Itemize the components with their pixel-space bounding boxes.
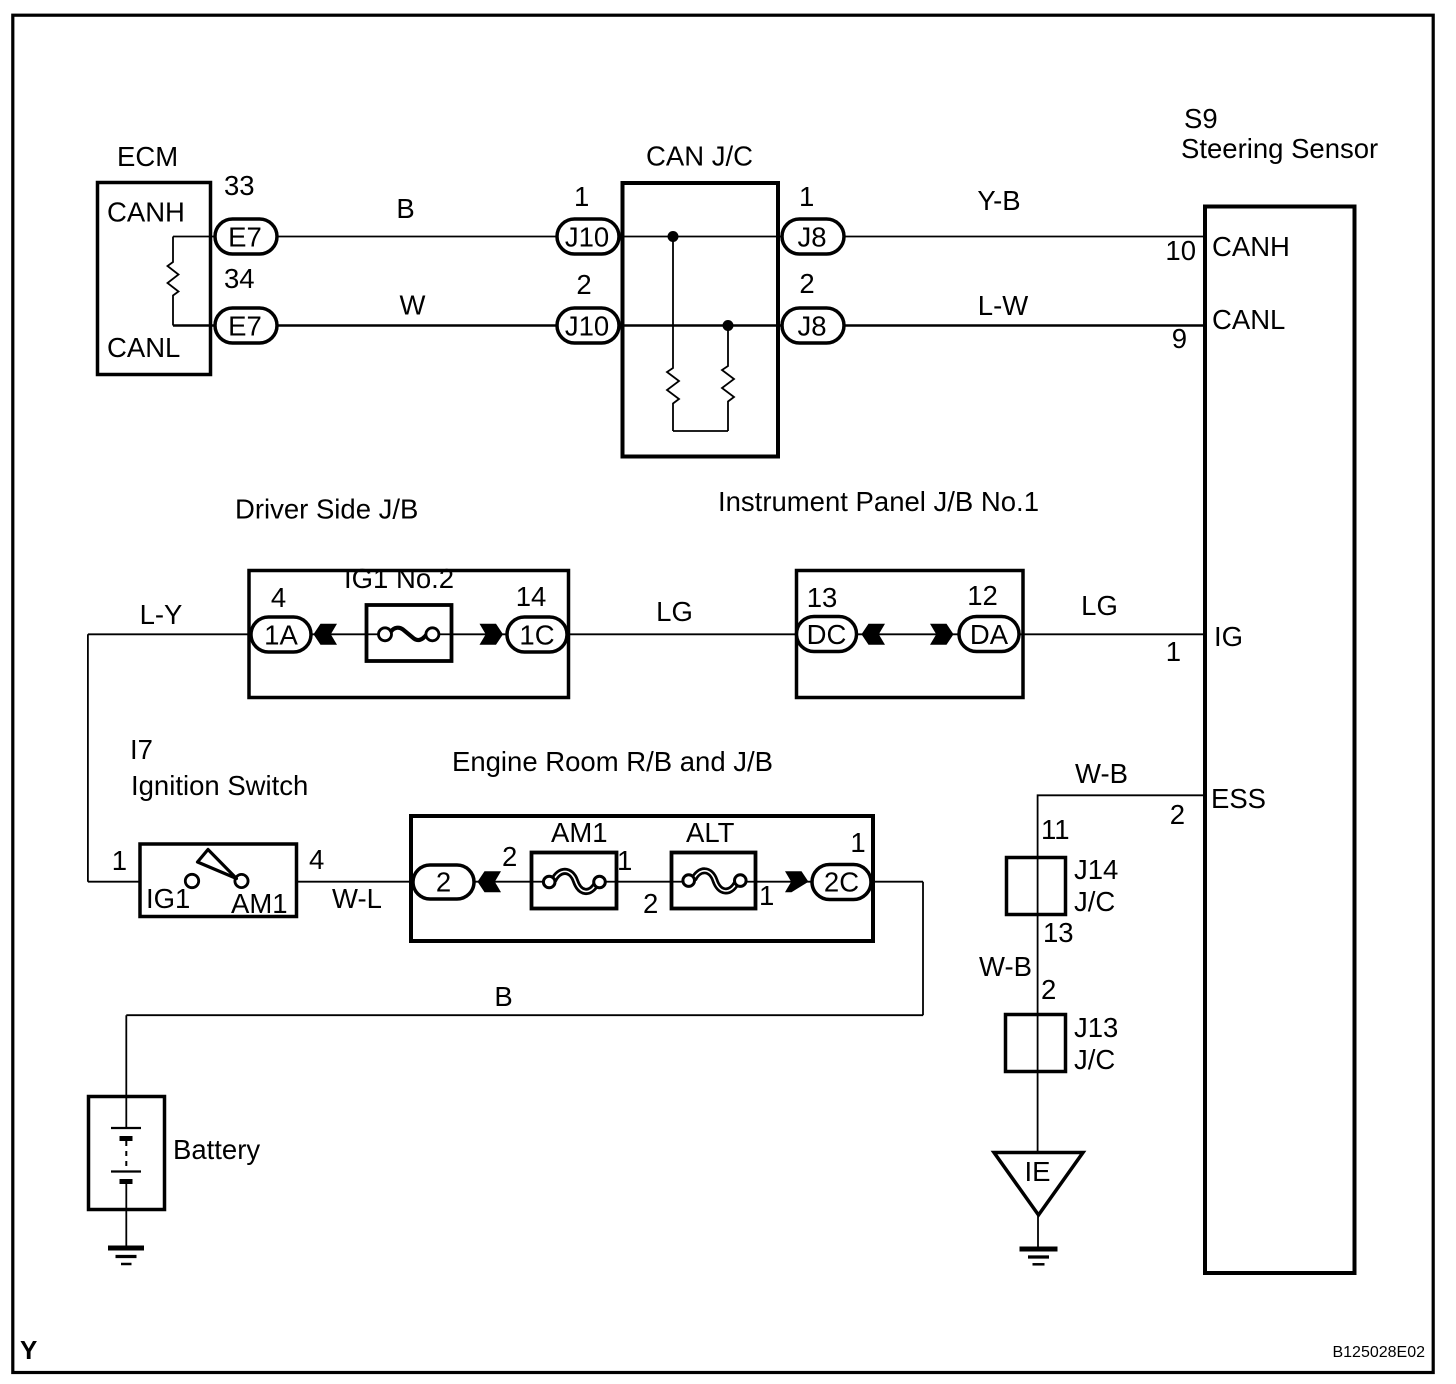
svg-text:34: 34 (224, 263, 255, 294)
connector J8 pin 1 (782, 181, 844, 254)
svg-text:2C: 2C (824, 867, 859, 898)
svg-text:IG1 No.2: IG1 No.2 (344, 563, 454, 594)
svg-text:14: 14 (516, 581, 547, 612)
svg-text:2: 2 (576, 269, 591, 300)
fusible link ALT (672, 817, 757, 909)
svg-text:Engine Room R/B and J/B: Engine Room R/B and J/B (452, 746, 773, 777)
svg-text:L-Y: L-Y (140, 599, 183, 630)
svg-text:IE: IE (1025, 1156, 1051, 1187)
connector 1A pin 4 (251, 582, 311, 652)
svg-text:E7: E7 (228, 222, 262, 253)
svg-text:4: 4 (271, 582, 286, 613)
svg-text:Y-B: Y-B (977, 185, 1020, 216)
svg-text:ECM: ECM (117, 141, 178, 172)
svg-text:L-W: L-W (978, 290, 1028, 321)
wire down to battery (125, 1015, 127, 1128)
svg-text:CANH: CANH (1212, 231, 1290, 262)
svg-text:CANL: CANL (1212, 304, 1285, 335)
svg-text:CANH: CANH (107, 197, 185, 228)
svg-text:1: 1 (759, 880, 774, 911)
arrow into 1C (480, 624, 504, 645)
svg-text:B: B (396, 193, 414, 224)
battery cell link (dashed) (125, 1141, 127, 1172)
svg-text:J/C: J/C (1074, 1044, 1115, 1075)
S9 Steering Sensor box (1165, 103, 1378, 1273)
connector 2C pin 1 (812, 827, 871, 900)
svg-text:2: 2 (799, 268, 814, 299)
arrow into 1A (314, 624, 338, 645)
connector 1C pin 14 (507, 581, 567, 652)
wire CANH B (ECM E7-33 to CAN J/C J10-1) (173, 236, 620, 238)
svg-text:Ignition Switch: Ignition Switch (131, 770, 308, 801)
svg-text:ALT: ALT (686, 817, 735, 848)
wire battery to ground (125, 1184, 127, 1247)
svg-text:1C: 1C (519, 620, 554, 651)
svg-text:10: 10 (1165, 235, 1196, 266)
connector E7 pin 33 (215, 170, 277, 254)
svg-text:B: B (494, 981, 512, 1012)
battery plate long 1 (111, 1127, 141, 1129)
connector 2 (413, 865, 474, 899)
svg-text:AM1: AM1 (551, 817, 608, 848)
svg-text:IG: IG (1214, 621, 1243, 652)
svg-text:1A: 1A (264, 620, 298, 651)
switch contact AM1 (235, 874, 248, 887)
battery plate short 2 (120, 1179, 133, 1184)
wire L-Y vertical drop to ignition switch (87, 634, 89, 881)
arrow into 2C (785, 871, 809, 892)
svg-text:W-L: W-L (332, 883, 382, 914)
wire B (battery feed) (126, 1014, 923, 1016)
wire through J14 (1037, 856, 1039, 1013)
svg-text:Driver Side J/B: Driver Side J/B (235, 494, 418, 525)
svg-text:1: 1 (617, 845, 632, 876)
svg-text:CANL: CANL (107, 332, 180, 363)
svg-text:J/C: J/C (1074, 886, 1115, 917)
svg-text:J10: J10 (565, 222, 609, 253)
wire from 2C down to B wire (922, 882, 924, 1016)
connector E7 pin 34 (215, 263, 277, 343)
connector J10 pin 2 (557, 269, 619, 343)
fuse IG1 No.2 (344, 563, 454, 661)
fusible link AM1 (532, 817, 617, 909)
node junction on CANL (723, 320, 734, 331)
battery plate long 2 (111, 1170, 141, 1172)
arrow into connector 2 (478, 871, 502, 892)
arrow into DC (862, 624, 886, 645)
svg-text:11: 11 (1041, 814, 1070, 845)
junction connector J13 J/C (1006, 1012, 1119, 1075)
svg-text:1: 1 (850, 827, 865, 858)
connector DA pin 12 (959, 580, 1019, 652)
wire IE to ground (1037, 1215, 1039, 1248)
switch lever (198, 850, 237, 879)
svg-text:2: 2 (1170, 799, 1185, 830)
connector J8 pin 2 (782, 268, 844, 343)
svg-text:DA: DA (970, 619, 1009, 650)
wire W-B (S9 ESS pin 2 to J14) (1038, 795, 1205, 856)
svg-text:2: 2 (436, 867, 451, 898)
svg-text:Instrument Panel J/B No.1: Instrument Panel J/B No.1 (718, 486, 1039, 517)
svg-text:J10: J10 (565, 311, 609, 342)
svg-text:13: 13 (807, 582, 838, 613)
switch contact IG1 (185, 874, 198, 887)
svg-text:E7: E7 (228, 311, 262, 342)
svg-text:W: W (400, 290, 426, 321)
svg-text:Steering Sensor: Steering Sensor (1181, 133, 1378, 164)
svg-text:1: 1 (112, 845, 127, 876)
svg-text:LG: LG (1081, 590, 1118, 621)
node junction on CANH (668, 231, 679, 242)
svg-text:IG1: IG1 (146, 883, 190, 914)
svg-text:2: 2 (1041, 974, 1056, 1005)
arrow into DA (930, 624, 954, 645)
svg-text:W-B: W-B (979, 951, 1032, 982)
ignition switch I7 (112, 734, 325, 919)
wire LG (IG1 fuse to 1C, Driver Side J/B to Instrument Panel J/B) (437, 633, 1205, 635)
connector DC pin 13 (797, 582, 857, 652)
ECM box (98, 141, 211, 375)
svg-text:2: 2 (502, 841, 517, 872)
svg-text:12: 12 (967, 580, 998, 611)
wire into ignition switch pin 1 (88, 881, 141, 883)
ground (battery) (108, 1248, 144, 1264)
svg-text:J14: J14 (1074, 854, 1118, 885)
wire AM1 to ALT inside Engine Room J/B (605, 881, 683, 883)
terminating resistor inside ECM (168, 237, 179, 326)
svg-text:DC: DC (807, 619, 847, 650)
battery (89, 1097, 261, 1210)
wire W-L (switch pin 4 to Engine Room connector 2) (296, 881, 543, 883)
svg-text:13: 13 (1043, 917, 1074, 948)
svg-text:Y: Y (20, 1335, 37, 1365)
wire CANL inside CAN J/C (620, 324, 782, 326)
wire L-W (CAN J/C J8-2 to S9 CANL pin 9) (782, 324, 1205, 326)
svg-text:I7: I7 (130, 734, 153, 765)
terminating resistor (CANH side) inside CAN J/C (667, 237, 679, 432)
svg-text:9: 9 (1172, 323, 1187, 354)
Engine Room R/B and J/B box (411, 746, 873, 941)
Driver Side J/B box (235, 494, 569, 698)
svg-text:Battery: Battery (173, 1134, 260, 1165)
wire CANL W (ECM E7-34 to CAN J/C J10-2) (173, 324, 620, 326)
svg-text:1: 1 (574, 181, 589, 212)
Instrument Panel J/B No.1 box (718, 486, 1039, 698)
svg-text:W-B: W-B (1075, 758, 1128, 789)
svg-text:LG: LG (656, 596, 693, 627)
svg-text:33: 33 (224, 170, 255, 201)
CAN J/C box (623, 141, 779, 457)
svg-text:1: 1 (799, 181, 814, 212)
ground (IE) (1020, 1249, 1058, 1264)
svg-text:CAN J/C: CAN J/C (646, 141, 753, 172)
terminating resistor (CANL side) inside CAN J/C (722, 326, 734, 432)
wire ALT to 2C and out (747, 881, 923, 883)
svg-text:4: 4 (309, 844, 324, 875)
connector J10 pin 1 (557, 181, 619, 254)
svg-text:J8: J8 (797, 222, 826, 253)
wire L-Y (corner to Driver Side J/B 1A) (88, 633, 382, 635)
svg-text:J13: J13 (1074, 1012, 1118, 1043)
svg-text:AM1: AM1 (231, 888, 288, 919)
svg-text:S9: S9 (1184, 103, 1218, 134)
wire J13 to IE (1037, 1013, 1039, 1152)
svg-text:B125028E02: B125028E02 (1332, 1344, 1425, 1361)
svg-text:ESS: ESS (1211, 783, 1266, 814)
wire Y-B (CAN J/C J8-1 to S9 CANH pin 10) (782, 236, 1205, 238)
svg-text:J8: J8 (797, 311, 826, 342)
ground point IE (994, 1153, 1083, 1216)
wire CANH inside CAN J/C (620, 236, 782, 238)
svg-text:2: 2 (643, 888, 658, 919)
junction connector J14 J/C (1007, 854, 1119, 917)
svg-text:1: 1 (1166, 636, 1181, 667)
wire joining resistor bottoms (673, 430, 728, 432)
battery plate short 1 (120, 1136, 133, 1141)
